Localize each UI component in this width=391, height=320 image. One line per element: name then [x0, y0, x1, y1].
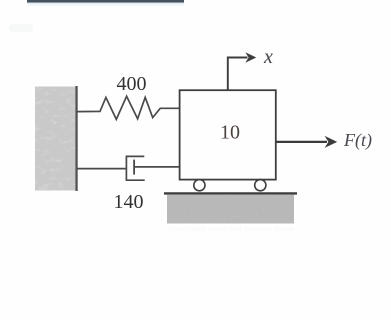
force arrow F(t) — [276, 136, 337, 148]
spring k=400 (wall to mass) — [77, 96, 180, 119]
ground line — [164, 192, 297, 194]
wheel left — [194, 180, 205, 191]
wheel right — [255, 180, 266, 191]
mass block m=10 — [180, 90, 276, 179]
damper cylinder — [126, 156, 144, 180]
damper piston — [133, 160, 135, 175]
svg-text:400: 400 — [117, 73, 147, 95]
svg-text:10: 10 — [220, 122, 240, 144]
displacement arrow x — [228, 52, 256, 90]
svg-text:140: 140 — [114, 191, 144, 213]
wall (fixed support, textured) — [35, 86, 78, 191]
svg-text:x: x — [263, 46, 273, 68]
wire wall to damper — [77, 168, 127, 170]
damper wire to mass — [134, 166, 180, 168]
faint smudge top-left — [9, 24, 33, 32]
svg-text:F(t): F(t) — [343, 130, 372, 151]
top cropped toolbar edge — [27, 0, 184, 8]
svg-text:Transcribed image text availab: Transcribed image text available below — [167, 226, 294, 233]
ground (textured) — [167, 195, 294, 224]
